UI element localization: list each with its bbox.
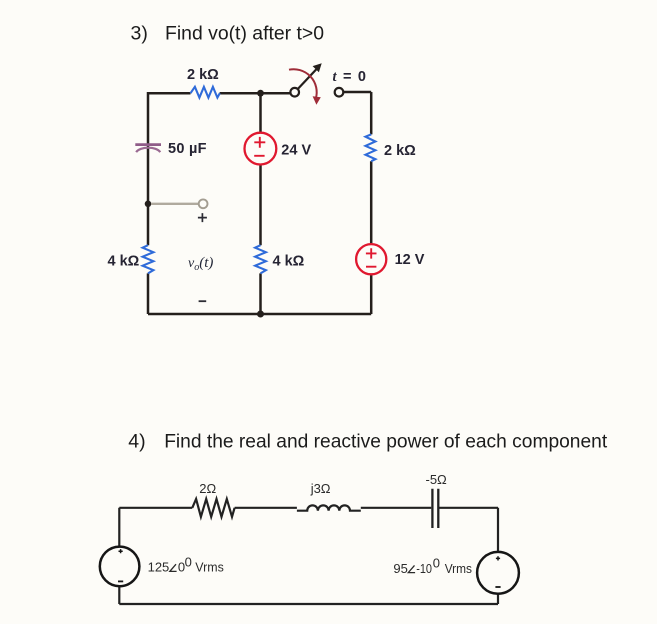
resistor 4 kOhm left — [143, 245, 154, 273]
wire left branch — [147, 92, 150, 314]
node dot top middle — [257, 90, 264, 97]
svg-text:Vrms: Vrms — [195, 560, 224, 575]
voltage source 12 V — [356, 244, 386, 274]
svg-text:2Ω: 2Ω — [199, 481, 216, 496]
switch pivot circle — [290, 88, 299, 97]
svg-text:0: 0 — [433, 556, 440, 571]
svg-text:125: 125 — [148, 560, 170, 575]
svg-text:24 V: 24 V — [281, 143, 311, 159]
voltage source 95 Vrms — [477, 552, 519, 594]
svg-text:95: 95 — [393, 561, 407, 576]
svg-text:j3Ω: j3Ω — [310, 481, 331, 496]
resistor 2 Ohm — [192, 499, 234, 517]
svg-text:4 kΩ: 4 kΩ — [108, 254, 140, 270]
svg-text:2 kΩ: 2 kΩ — [384, 143, 416, 159]
svg-text:-10: -10 — [416, 561, 432, 576]
svg-text:4): 4) — [128, 430, 145, 452]
title problem 4 — [128, 430, 607, 452]
svg-text:Vrms: Vrms — [445, 561, 473, 576]
wire bottom circuit 4 — [119, 586, 498, 604]
title problem 3 — [131, 22, 325, 44]
wire bottom — [148, 313, 371, 316]
svg-text:vo(t): vo(t) — [188, 255, 213, 273]
plus sign of vo — [198, 213, 207, 222]
svg-text:-5Ω: -5Ω — [426, 472, 448, 487]
svg-text:2 kΩ: 2 kΩ — [187, 67, 219, 83]
svg-text:3): 3) — [131, 22, 148, 44]
wire right branch — [343, 92, 371, 314]
node dot left with probe — [145, 201, 152, 208]
switch lever with arrowhead — [298, 68, 317, 89]
voltage source 125 Vrms — [100, 547, 140, 587]
switch target circle — [335, 88, 344, 97]
wire middle branch — [259, 93, 262, 314]
probe terminal circle — [199, 199, 208, 208]
minus sign of vo — [199, 300, 207, 302]
resistor 2 kOhm top — [191, 87, 220, 98]
wire top — [148, 92, 290, 95]
wire top circuit 4 — [119, 508, 498, 552]
node dot bottom middle — [257, 311, 264, 318]
voltage source 24 V — [245, 133, 277, 165]
probe wire gray — [151, 203, 198, 205]
label 95 angle -10 Vrms — [393, 556, 472, 576]
svg-text:50 µF: 50 µF — [168, 141, 207, 157]
inductor j3 Ohm — [297, 505, 361, 510]
switch red closing arc arrow — [289, 69, 317, 98]
capacitor -5 Ohm — [432, 489, 438, 528]
resistor 4 kOhm middle — [255, 245, 266, 273]
svg-text:0: 0 — [185, 554, 192, 569]
capacitor 50 uF — [135, 145, 161, 153]
svg-text:12 V: 12 V — [395, 252, 425, 268]
svg-text:Find vo(t) after t>0: Find vo(t) after t>0 — [165, 22, 324, 44]
svg-text:4 kΩ: 4 kΩ — [273, 254, 305, 270]
label 125 angle 0 Vrms — [148, 554, 225, 574]
svg-text:t = 0: t = 0 — [333, 69, 367, 85]
resistor 2 kOhm right — [366, 134, 376, 161]
svg-text:Find the real and reactive pow: Find the real and reactive power of each… — [164, 430, 608, 452]
